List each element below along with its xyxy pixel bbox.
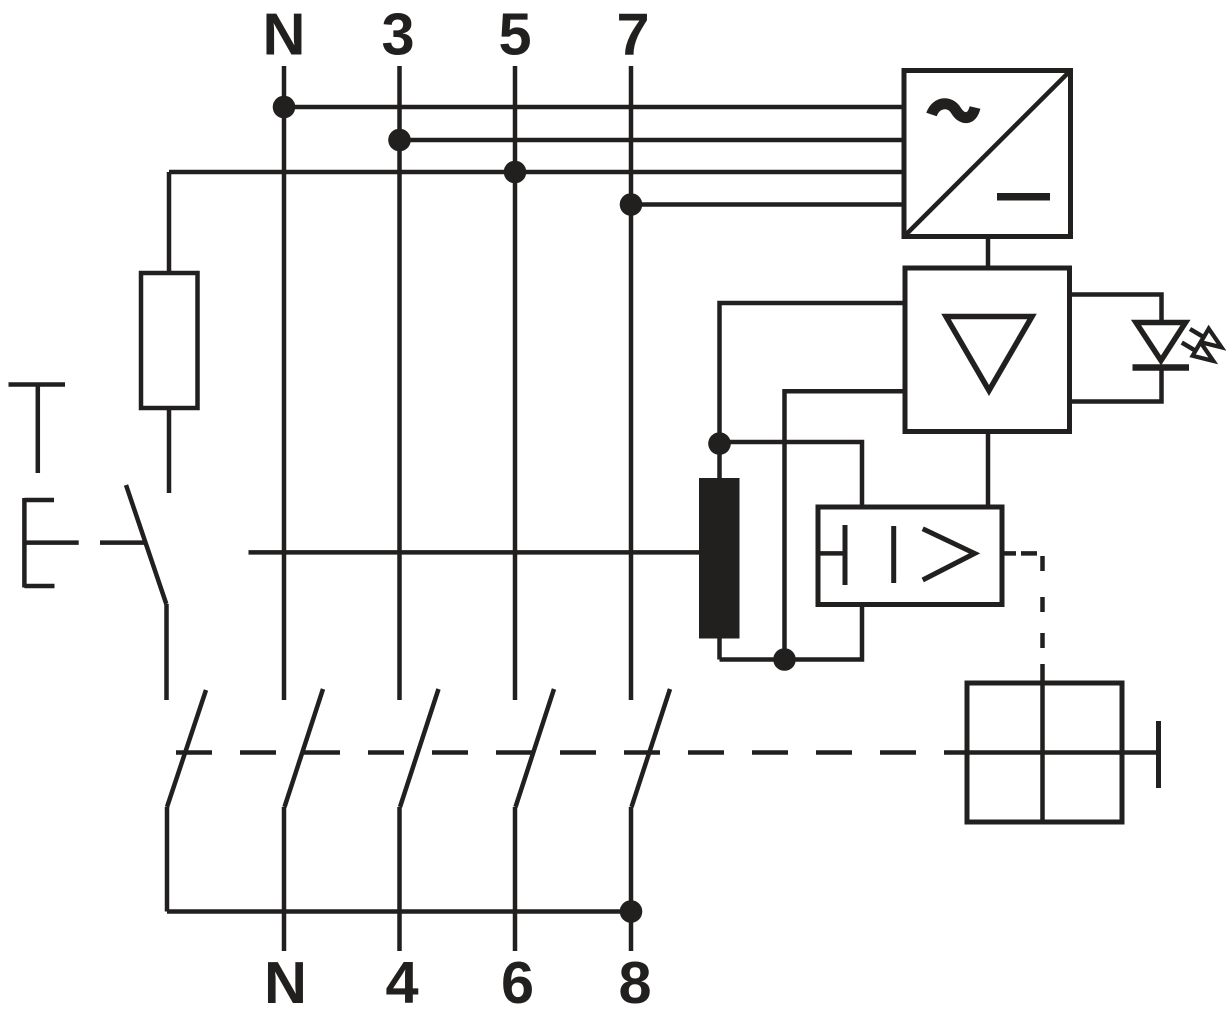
wire LED bottom lead — [1070, 368, 1162, 402]
wire 8 lower column — [629, 807, 634, 951]
wire winding top lead — [717, 444, 722, 479]
node on 8 line bottom — [620, 900, 643, 923]
test button actuator link segment 1 — [24, 540, 78, 545]
wire test path contact to bottom rail — [165, 807, 170, 912]
LED D1 cathode bar — [1133, 364, 1190, 371]
node on 7 line — [620, 193, 643, 216]
svg-text:4: 4 — [385, 949, 418, 1012]
wire LED top lead — [1070, 295, 1162, 322]
wire winding bottom lead — [717, 637, 722, 660]
mechanical trip linkage dashed line — [176, 750, 951, 755]
main contact blade N — [285, 689, 324, 807]
current transformer core line — [249, 550, 701, 555]
node on 3 line — [388, 129, 411, 152]
node on 5 line — [504, 161, 527, 184]
svg-text:7: 7 — [616, 1, 649, 68]
wire converter to amplifier — [986, 237, 991, 269]
wire 6 lower column — [513, 807, 518, 951]
wire 3 tap horizontal — [400, 138, 905, 143]
relay K1 plate 2 — [891, 526, 896, 583]
svg-text:N: N — [264, 949, 307, 1012]
relay output dash v1 — [1040, 556, 1045, 571]
node winding top — [708, 432, 731, 455]
svg-text:6: 6 — [501, 949, 534, 1012]
node winding bottom loop — [773, 648, 796, 671]
test button bracket top arm — [24, 498, 54, 503]
relay output dash h — [1021, 551, 1037, 556]
LED arrow 2 head — [1193, 342, 1214, 361]
amplifier U2 triangle — [946, 317, 1032, 391]
main contact blade 6 — [516, 689, 555, 807]
wire N column vertical — [282, 66, 287, 700]
tripping relay K1 box — [818, 507, 1002, 605]
trip mechanism vertical member — [1040, 664, 1045, 822]
svg-text:5: 5 — [498, 1, 531, 68]
relay K1 plate 1 — [843, 525, 848, 585]
wire L2 column vertical (5) — [513, 66, 518, 700]
wire 4 lower column — [397, 807, 402, 951]
main contact blade 8 — [632, 689, 671, 807]
LED arrow 1 head — [1201, 329, 1222, 348]
wire L3 column vertical (7) — [629, 66, 634, 700]
resistor R1 (test resistor) — [141, 273, 198, 408]
secondary winding bar W1 — [699, 478, 740, 639]
converter U1 box — [904, 71, 1071, 237]
test button bracket vertical — [22, 498, 27, 588]
LED arrow 2 shaft — [1182, 343, 1196, 351]
wire L1 column vertical (3) — [397, 66, 402, 700]
wire test contact to main contact — [164, 604, 169, 700]
wire bottom loop — [720, 605, 863, 660]
wire test branch down to resistor — [167, 172, 172, 273]
test button bracket bottom arm — [24, 584, 54, 589]
trip mechanism end stop — [1156, 721, 1161, 788]
wire resistor to test contact — [167, 408, 172, 493]
wire bottom test return rail — [167, 909, 631, 914]
relay K1 left lead — [818, 551, 844, 556]
LED D1 triangle — [1136, 323, 1186, 361]
svg-text:8: 8 — [618, 949, 651, 1012]
wire amplifier to relay — [986, 432, 991, 508]
test button T stem — [36, 385, 41, 474]
converter U1 AC tilde — [932, 104, 976, 118]
relay K1 chevron — [923, 529, 975, 580]
trip mechanism box — [967, 683, 1122, 822]
wire N tap horizontal — [284, 105, 904, 110]
wire 7 tap horizontal — [631, 202, 904, 207]
amplifier U2 box — [905, 268, 1070, 432]
main contact blade 4 — [400, 689, 439, 807]
relay output dash v3 — [1040, 633, 1045, 648]
test contact blade — [126, 485, 166, 604]
wire amplifier second input — [785, 391, 906, 659]
converter U1 DC bar — [997, 193, 1050, 201]
main contact blade (test path) — [167, 690, 206, 807]
trip mechanism horizontal member — [951, 750, 1159, 755]
svg-text:N: N — [263, 1, 306, 68]
wire N lower column — [282, 807, 287, 951]
wire 5 tap horizontal (to test branch) — [169, 170, 904, 175]
test button T bar — [9, 382, 66, 387]
test button actuator link segment 2 — [100, 540, 146, 545]
converter U1 diagonal — [906, 73, 1069, 235]
svg-text:3: 3 — [381, 1, 414, 68]
wire node to relay top — [720, 442, 863, 507]
node on N line — [273, 96, 296, 119]
LED arrow 1 shaft — [1190, 329, 1204, 337]
relay output dash v2 — [1040, 597, 1045, 612]
relay K1 output lead — [1002, 551, 1016, 556]
wire node up to amplifier — [720, 303, 906, 444]
